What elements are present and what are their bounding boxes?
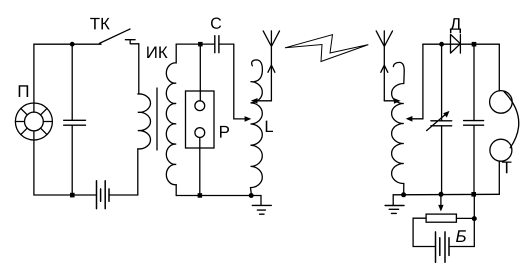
spark gap R rectangle <box>186 91 215 148</box>
antenna up arrow chevron <box>268 65 275 72</box>
wire key contact to primary coil <box>138 44 140 94</box>
capacitor (primary circuit) wires <box>71 44 73 195</box>
receiver coil <box>392 62 405 192</box>
wire antenna to coil tap <box>257 100 271 102</box>
telephone earpiece top <box>490 91 513 114</box>
receiver antenna <box>376 31 392 101</box>
secondary top wire <box>176 43 215 45</box>
ground (receiver) stem <box>392 195 394 206</box>
variable capacitor plates <box>431 121 452 126</box>
tap arrowhead right <box>245 116 252 122</box>
induction coil IK core <box>156 88 158 150</box>
label C <box>211 18 221 29</box>
tap arrowhead right (receiver) <box>394 98 401 104</box>
label TK <box>90 18 99 30</box>
secondary bottom bus <box>176 195 251 197</box>
induction coil IK secondary winding <box>166 44 176 195</box>
variable capacitor wires <box>441 44 443 194</box>
node junction dot (square) spark gap bottom <box>198 193 203 198</box>
node junction dot <box>70 42 75 47</box>
wire primary coil to battery <box>109 149 138 195</box>
resistor right lead <box>456 217 474 219</box>
fixed capacitor plates <box>464 121 484 126</box>
interrupter P (circle with spokes) <box>15 103 52 140</box>
receiver antenna up arrow chevron <box>381 65 388 72</box>
node junction dot coil bottom <box>401 192 406 197</box>
node junction dot square fixed cap bottom <box>471 192 476 197</box>
node junction dot (square) top of spark gap <box>198 42 203 47</box>
battery (transmitter) <box>97 181 106 209</box>
telegraph key TK lever <box>99 29 130 43</box>
telephone T wires <box>498 44 500 194</box>
label B (battery) <box>456 230 466 242</box>
label T <box>502 162 512 174</box>
wire down to spark gap <box>199 44 201 101</box>
label R <box>220 126 229 138</box>
wire top-left corner down to coil tap <box>412 44 423 119</box>
label L <box>266 121 273 132</box>
capacitor C plates <box>215 36 219 53</box>
tap arrowhead left <box>251 98 258 104</box>
label P <box>19 85 28 97</box>
bottom wire P to battery <box>34 140 97 195</box>
battery B plates <box>436 232 446 262</box>
node junction dot variable cap bottom <box>439 192 444 197</box>
resistor left lead to battery <box>413 218 435 246</box>
receiver bottom bus <box>393 193 499 196</box>
wire from P top to key <box>34 44 101 103</box>
ground (receiver) <box>385 206 404 214</box>
label D <box>450 18 461 33</box>
arrow down to resistor <box>440 194 442 205</box>
telephone earpiece bottom <box>490 139 512 161</box>
variable capacitor arrow <box>427 114 446 130</box>
tap arrowhead left (receiver) <box>406 116 413 122</box>
node junction dot L bottom <box>249 193 254 198</box>
wire to ground (transmitter) <box>251 196 261 206</box>
node junction dot square (diode right) <box>472 42 477 47</box>
node junction dot bottom <box>70 193 75 198</box>
battery right lead <box>449 194 474 246</box>
spark gap electrode circle top <box>195 101 205 111</box>
receiver top wire <box>423 43 499 45</box>
node junction dot battery/resistor <box>472 216 477 221</box>
telephone headband arc <box>504 92 519 148</box>
diode D <box>451 34 461 53</box>
resistor (coherer) rectangle <box>426 214 456 222</box>
wire C to coil tap <box>219 44 246 119</box>
fixed capacitor wires <box>473 44 475 194</box>
transmitter antenna <box>263 31 279 101</box>
coil L <box>251 60 263 193</box>
wire spark gap bottom <box>199 138 201 196</box>
induction coil IK primary winding <box>138 94 151 149</box>
spark gap electrode circle bottom <box>195 128 205 138</box>
telegraph key TK contact <box>125 40 138 44</box>
label IK <box>147 46 156 58</box>
capacitor (primary circuit) plates <box>64 120 86 125</box>
wire antenna to receiver coil tap <box>384 100 394 102</box>
ground (transmitter) <box>252 205 271 214</box>
lightning bolt (radio waves) <box>285 35 368 62</box>
node junction dot (diode left) <box>439 42 444 47</box>
